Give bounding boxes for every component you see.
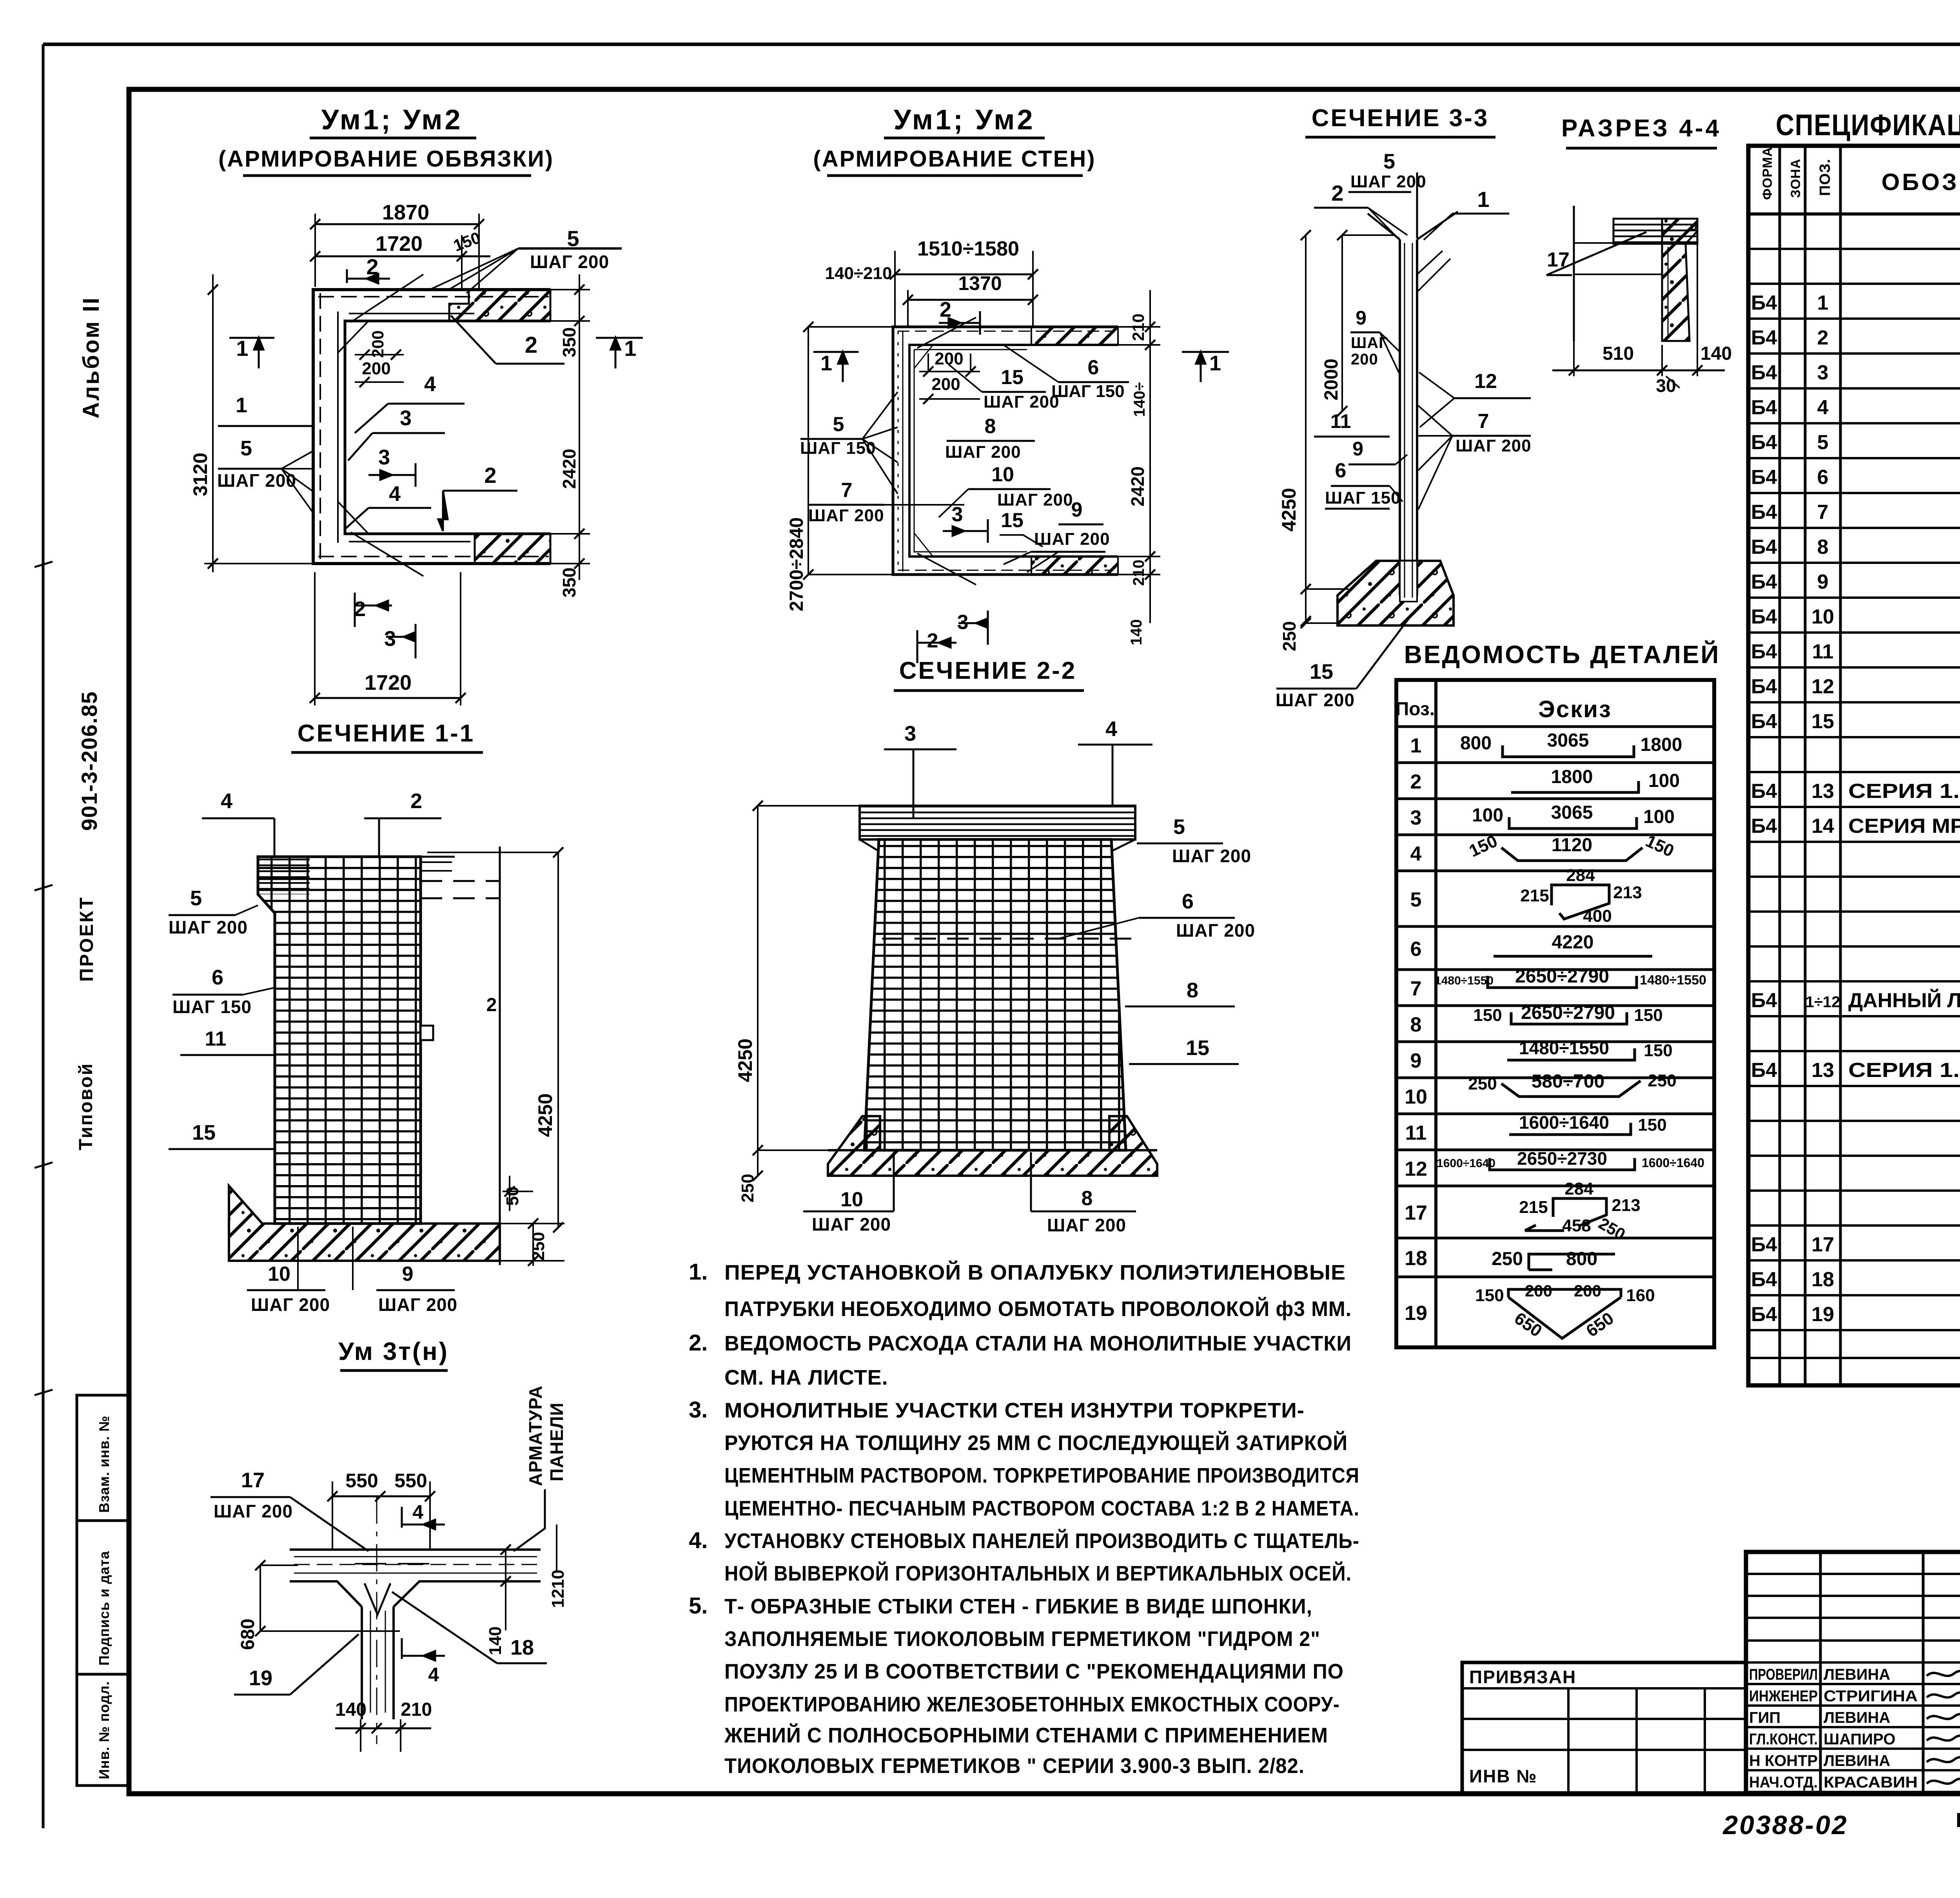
svg-text:МОНОЛИТНЫЕ УЧАСТКИ СТЕН ИЗН: МОНОЛИТНЫЕ УЧАСТКИ СТЕН ИЗНУТРИ ТОРКРЕТИ… (724, 1399, 1305, 1422)
svg-text:13: 13 (1811, 1059, 1834, 1082)
svg-text:ЦЕМЕНТНО- ПЕСЧАНЫМ РАСТВОРОМ: ЦЕМЕНТНО- ПЕСЧАНЫМ РАСТВОРОМ СОСТАВА 1:2… (724, 1497, 1359, 1520)
svg-text:17: 17 (1811, 1233, 1834, 1256)
vedomost table grid (1396, 680, 1714, 1347)
left border division ticks (34, 562, 53, 567)
drawing C dim 250 (1305, 589, 1307, 623)
svg-text:ШАГ 200: ШАГ 200 (808, 506, 884, 525)
svg-text:Ум 3т(н): Ум 3т(н) (338, 1337, 449, 1365)
svg-text:Альбом II: Альбом II (78, 296, 104, 419)
svg-text:Б4: Б4 (1751, 466, 1777, 489)
drawing F dashed line mid (882, 938, 1133, 940)
svg-text:Б4: Б4 (1751, 396, 1777, 419)
svg-text:800: 800 (1460, 733, 1492, 754)
svg-text:901-3-206.85: 901-3-206.85 (77, 691, 102, 831)
svg-text:1870: 1870 (382, 201, 429, 224)
drawing D slab with form lines (1613, 219, 1697, 244)
svg-text:ПРОЕКТ: ПРОЕКТ (76, 896, 97, 982)
svg-text:2420: 2420 (559, 449, 579, 489)
svg-text:Б4: Б4 (1751, 1268, 1777, 1291)
svg-text:8: 8 (1187, 979, 1198, 1002)
svg-text:ШАГ 150: ШАГ 150 (172, 997, 252, 1017)
svg-text:Б4: Б4 (1751, 326, 1777, 349)
svg-text:Б4: Б4 (1751, 710, 1777, 733)
vedomost sketch row 19 (1508, 1289, 1621, 1338)
svg-text:СПЕЦИФИКАЦИЯ МОНОЛИТНЫХ УЧАС: СПЕЦИФИКАЦИЯ МОНОЛИТНЫХ УЧАСТКОВ Ум1 ÷ У… (1776, 109, 1960, 142)
drawing E dim 4250 (557, 852, 559, 1227)
svg-text:Поз.: Поз. (1396, 699, 1435, 720)
svg-text:2: 2 (525, 332, 537, 358)
svg-text:140: 140 (1700, 343, 1732, 364)
svg-text:9: 9 (1356, 307, 1367, 329)
svg-text:Б4: Б4 (1751, 431, 1777, 454)
svg-text:Б4: Б4 (1751, 292, 1777, 314)
svg-text:ШАГ 200: ШАГ 200 (1034, 529, 1110, 549)
svg-text:17: 17 (1547, 248, 1570, 271)
svg-text:1120: 1120 (1552, 835, 1592, 856)
svg-text:1: 1 (236, 393, 247, 417)
svg-text:ШАГ 200: ШАГ 200 (214, 1501, 293, 1521)
drawing A dim 1720 bottom (315, 697, 461, 699)
drawing E top flange form lines (258, 857, 310, 894)
svg-text:3065: 3065 (1551, 802, 1593, 823)
svg-text:200: 200 (362, 359, 390, 378)
svg-text:210: 210 (401, 1699, 432, 1720)
svg-text:4: 4 (412, 1501, 423, 1523)
svg-text:Б4: Б4 (1751, 571, 1777, 593)
svg-text:2700÷2840: 2700÷2840 (786, 517, 807, 611)
svg-text:2: 2 (1331, 181, 1343, 205)
drawing E footing (229, 1186, 500, 1261)
svg-text:9: 9 (1352, 438, 1363, 460)
drawing B dim 1370 (908, 299, 1033, 301)
drawing C dim 2000 (1341, 235, 1343, 411)
vedomost sketch row 4 (1501, 848, 1642, 861)
svg-text:8: 8 (985, 415, 996, 438)
svg-text:ИНВ №: ИНВ № (1469, 1766, 1537, 1786)
svg-text:5: 5 (1817, 431, 1829, 454)
svg-text:4220: 4220 (1552, 932, 1594, 953)
title block signatures squiggles (1927, 1670, 1960, 1676)
svg-text:НАЧ.ОТД.: НАЧ.ОТД. (1749, 1774, 1818, 1791)
svg-text:140÷: 140÷ (1131, 382, 1148, 417)
svg-text:Б4: Б4 (1751, 536, 1777, 558)
svg-text:140: 140 (1128, 619, 1145, 645)
svg-text:6: 6 (1088, 356, 1099, 379)
svg-text:6: 6 (1817, 466, 1829, 489)
svg-text:5: 5 (190, 886, 202, 910)
svg-text:140: 140 (335, 1699, 367, 1720)
svg-text:ШАПИРО: ШАПИРО (1824, 1731, 1895, 1748)
svg-text:ВЕДОМОСТЬ РАСХОДА СТАЛИ НА: ВЕДОМОСТЬ РАСХОДА СТАЛИ НА МОНОЛИТНЫЕ УЧ… (724, 1332, 1352, 1355)
svg-text:680: 680 (238, 1619, 258, 1650)
svg-text:ЛЕВИНА: ЛЕВИНА (1824, 1709, 1890, 1726)
drawing E right inner wall line (499, 847, 501, 1265)
drawing D left vertical line (1573, 206, 1575, 341)
svg-text:4: 4 (1105, 717, 1117, 741)
svg-text:Взам. инв. №: Взам. инв. № (96, 1416, 112, 1513)
svg-text:Б4: Б4 (1751, 780, 1777, 803)
svg-text:Б4: Б4 (1751, 675, 1777, 698)
svg-text:8: 8 (1817, 536, 1829, 558)
svg-text:3065: 3065 (1547, 730, 1589, 751)
svg-text:ШАГ 200: ШАГ 200 (945, 442, 1021, 462)
vedomost sketch row 1 (1503, 745, 1634, 757)
svg-text:100: 100 (1643, 807, 1675, 827)
drawing F body mesh (864, 839, 1126, 1150)
drawing C dim 4250 (1305, 235, 1307, 621)
svg-text:2: 2 (484, 463, 496, 488)
svg-text:6: 6 (212, 966, 223, 989)
svg-text:19: 19 (1405, 1302, 1427, 1325)
drawing A outline outer (313, 290, 550, 564)
svg-text:7: 7 (1410, 977, 1422, 1000)
drawing G wall rebar (294, 1556, 537, 1557)
drawing F footing (828, 1116, 1157, 1176)
svg-text:250: 250 (1279, 621, 1299, 651)
svg-text:15: 15 (1811, 710, 1834, 733)
svg-text:1: 1 (236, 336, 248, 361)
svg-text:Б4: Б4 (1751, 640, 1777, 663)
svg-text:Б4: Б4 (1751, 361, 1777, 384)
svg-text:250: 250 (738, 1174, 757, 1202)
svg-text:ПЕРЕД УСТАНОВКОЙ В ОПАЛУБКУ: ПЕРЕД УСТАНОВКОЙ В ОПАЛУБКУ ПОЛИЭТИЛЕНОВ… (724, 1260, 1346, 1284)
svg-text:2650÷2730: 2650÷2730 (1517, 1148, 1607, 1169)
svg-text:140÷210: 140÷210 (825, 264, 892, 283)
svg-text:350: 350 (559, 567, 579, 598)
svg-text:18: 18 (1811, 1268, 1834, 1291)
drawing F dim 4250 left (757, 806, 759, 1176)
svg-text:12: 12 (1811, 675, 1834, 698)
svg-text:12: 12 (1405, 1158, 1427, 1180)
svg-text:2650÷2790: 2650÷2790 (1521, 1002, 1615, 1023)
svg-text:1800: 1800 (1551, 767, 1593, 787)
svg-text:11: 11 (1330, 410, 1351, 432)
vedomost sketch row 6 (1494, 955, 1652, 958)
svg-text:1.: 1. (689, 1259, 708, 1285)
svg-text:Б4: Б4 (1751, 989, 1777, 1012)
svg-text:Ум1; Ум2: Ум1; Ум2 (894, 104, 1035, 136)
svg-text:4: 4 (389, 482, 401, 506)
svg-text:510: 510 (1602, 343, 1634, 364)
svg-text:2420: 2420 (1127, 466, 1148, 506)
svg-text:550: 550 (345, 1470, 378, 1492)
vedomost sketch row 9 (1507, 1048, 1635, 1060)
svg-text:10: 10 (991, 463, 1014, 486)
vedomost sketch row 18 (1529, 1254, 1615, 1270)
drawing B outline outer (893, 327, 1118, 575)
svg-text:ПАНЕЛИ: ПАНЕЛИ (546, 1402, 567, 1481)
svg-text:3: 3 (378, 446, 390, 469)
outer thin page border (43, 43, 1960, 46)
svg-text:15: 15 (1310, 660, 1333, 683)
svg-text:1600÷1640: 1600÷1640 (1437, 1157, 1495, 1170)
svg-text:19: 19 (1811, 1303, 1834, 1326)
svg-text:5: 5 (833, 413, 844, 436)
svg-text:Б4: Б4 (1751, 501, 1777, 524)
svg-text:Т- ОБРАЗНЫЕ СТЫКИ СТЕН - ГИБ: Т- ОБРАЗНЫЕ СТЫКИ СТЕН - ГИБКИЕ В ВИДЕ Ш… (724, 1595, 1312, 1618)
svg-text:11: 11 (205, 1028, 227, 1050)
svg-text:4: 4 (1817, 396, 1829, 419)
svg-text:2: 2 (1817, 326, 1829, 349)
svg-text:2: 2 (1410, 770, 1422, 793)
svg-text:14: 14 (1811, 815, 1834, 838)
drawing D wall band hatched (1662, 219, 1697, 341)
svg-text:350: 350 (559, 327, 579, 357)
svg-text:1: 1 (1209, 352, 1221, 375)
svg-text:550: 550 (394, 1470, 427, 1492)
svg-text:ШАГ 150: ШАГ 150 (1051, 382, 1125, 401)
vedomost sketch row 2 (1511, 781, 1639, 792)
svg-text:ПАТРУБКИ НЕОБХОДИМО ОБМОТАТЬ: ПАТРУБКИ НЕОБХОДИМО ОБМОТАТЬ ПРОВОЛОКОЙ … (724, 1297, 1352, 1321)
svg-text:СЕЧЕНИЕ 2-2: СЕЧЕНИЕ 2-2 (899, 657, 1077, 684)
svg-text:20388-02: 20388-02 (1722, 1810, 1848, 1840)
svg-text:ЗОНА: ЗОНА (1788, 159, 1803, 198)
vedomost sketch row 3 (1509, 817, 1637, 828)
vedomost sketch row 11 (1509, 1123, 1631, 1135)
svg-text:1: 1 (1410, 734, 1422, 757)
drawing E dashed lines right (421, 880, 500, 882)
svg-text:215: 215 (1520, 886, 1549, 905)
svg-text:АРМАТУРА: АРМАТУРА (525, 1385, 546, 1486)
svg-text:СТРИГИНА: СТРИГИНА (1824, 1688, 1918, 1705)
svg-text:250: 250 (1468, 1074, 1497, 1093)
svg-text:3: 3 (904, 722, 916, 745)
svg-text:Эскиз: Эскиз (1538, 696, 1612, 722)
svg-text:5: 5 (1410, 888, 1422, 911)
svg-text:ОБОЗНАЧЕНИЕ: ОБОЗНАЧЕНИЕ (1882, 169, 1960, 195)
svg-text:13: 13 (1811, 780, 1834, 803)
svg-text:17: 17 (1405, 1202, 1427, 1224)
svg-text:215: 215 (1519, 1198, 1548, 1217)
svg-text:284: 284 (1564, 1179, 1593, 1198)
svg-text:200: 200 (1525, 1282, 1552, 1300)
drawing F top flange (860, 806, 1135, 839)
svg-text:ПОУЗЛУ 25 И В СООТВЕТСТВИИ: ПОУЗЛУ 25 И В СООТВЕТСТВИИ С "РЕКОМЕНДАЦ… (724, 1660, 1344, 1683)
svg-text:17: 17 (241, 1468, 265, 1492)
drawing G stem (361, 1607, 363, 1719)
svg-text:НОЙ ВЫВЕРКОЙ ГОРИЗОНТАЛЬНЫХ: НОЙ ВЫВЕРКОЙ ГОРИЗОНТАЛЬНЫХ И ВЕРТИКАЛЬН… (724, 1561, 1352, 1585)
svg-text:(АРМИРОВАНИЕ СТЕН): (АРМИРОВАНИЕ СТЕН) (813, 146, 1096, 172)
svg-text:2.: 2. (689, 1330, 708, 1356)
svg-text:3: 3 (400, 406, 412, 430)
svg-text:150: 150 (1634, 1006, 1662, 1025)
svg-text:1: 1 (624, 336, 636, 361)
drawing G wall (290, 1548, 541, 1551)
svg-text:Б4: Б4 (1751, 1233, 1777, 1256)
svg-text:6: 6 (1335, 459, 1347, 482)
svg-text:ФОРМА: ФОРМА (1760, 147, 1775, 200)
svg-text:4250: 4250 (534, 1093, 556, 1137)
svg-text:150: 150 (1644, 1041, 1672, 1060)
vedomost sketch row 8 (1511, 1012, 1627, 1024)
svg-text:1480÷1550: 1480÷1550 (1640, 973, 1706, 988)
svg-text:11: 11 (1405, 1122, 1427, 1144)
svg-text:ШАГ 200: ШАГ 200 (1276, 690, 1355, 710)
privyazan box (1462, 1662, 1746, 1794)
svg-text:1600÷1640: 1600÷1640 (1642, 1156, 1704, 1170)
svg-text:4.: 4. (689, 1528, 708, 1553)
svg-text:9: 9 (402, 1263, 414, 1285)
svg-text:1: 1 (820, 352, 832, 375)
svg-text:140: 140 (486, 1626, 505, 1655)
svg-text:ПРОВЕРИЛ: ПРОВЕРИЛ (1749, 1666, 1818, 1683)
svg-text:10: 10 (1405, 1086, 1427, 1108)
svg-text:150: 150 (1638, 1115, 1666, 1135)
svg-text:3.: 3. (689, 1397, 708, 1423)
svg-text:КОПИРОВАЛ ЕРЕМЧЕНКО: КОПИРОВАЛ ЕРЕМЧЕНКО (1956, 1809, 1960, 1832)
svg-text:15: 15 (1186, 1036, 1209, 1060)
svg-text:1600÷1640: 1600÷1640 (1519, 1112, 1609, 1133)
svg-text:3120: 3120 (189, 453, 211, 496)
svg-text:СМ. НА ЛИСТЕ.: СМ. НА ЛИСТЕ. (724, 1366, 888, 1389)
svg-text:ШАГ 200: ШАГ 200 (984, 392, 1060, 412)
svg-text:9: 9 (1817, 571, 1829, 593)
svg-text:4: 4 (428, 1664, 439, 1686)
svg-text:Подпись и дата: Подпись и дата (96, 1551, 112, 1666)
svg-text:7: 7 (1817, 501, 1829, 524)
svg-text:800: 800 (1566, 1249, 1597, 1269)
svg-text:213: 213 (1612, 1196, 1640, 1215)
svg-text:ЛЕВИНА: ЛЕВИНА (1824, 1752, 1890, 1769)
svg-text:2: 2 (927, 629, 938, 652)
svg-text:Б4: Б4 (1751, 1303, 1777, 1326)
svg-text:ШАГ 200: ШАГ 200 (812, 1214, 891, 1235)
svg-text:ЛЕВИНА: ЛЕВИНА (1824, 1666, 1890, 1683)
svg-text:УСТАНОВКУ СТЕНОВЫХ ПАНЕЛЕЙ: УСТАНОВКУ СТЕНОВЫХ ПАНЕЛЕЙ ПРОИЗВОДИТЬ С… (724, 1529, 1359, 1553)
svg-text:ПОЗ.: ПОЗ. (1817, 159, 1833, 196)
svg-text:Инв. № подл.: Инв. № подл. (96, 1681, 112, 1779)
svg-text:2650÷2790: 2650÷2790 (1515, 966, 1609, 987)
svg-text:580÷700: 580÷700 (1532, 1071, 1605, 1092)
left sidebar stamp boxes (77, 1395, 129, 1786)
svg-text:5.: 5. (689, 1593, 708, 1619)
drawing G center axis (376, 1496, 377, 1744)
svg-text:10: 10 (840, 1188, 863, 1211)
svg-text:458: 458 (1562, 1216, 1591, 1235)
svg-text:ДАННЫЙ ЛИСТ: ДАННЫЙ ЛИСТ (1848, 989, 1960, 1012)
drawing B outline inner (909, 345, 1118, 557)
svg-text:6: 6 (1410, 938, 1422, 961)
svg-text:ШАГ 200: ШАГ 200 (1047, 1215, 1126, 1235)
svg-text:5: 5 (240, 437, 252, 460)
svg-text:12: 12 (1474, 370, 1497, 393)
drawing E mesh body (258, 857, 421, 1224)
svg-text:ПРОЕКТИРОВАНИЮ ЖЕЛЕЗОБЕТОННЫХ: ПРОЕКТИРОВАНИЮ ЖЕЛЕЗОБЕТОННЫХ ЕМКОСТНЫХ … (724, 1693, 1340, 1716)
svg-text:ШАГ 200: ШАГ 200 (1172, 846, 1251, 866)
svg-text:1510÷1580: 1510÷1580 (917, 237, 1019, 260)
svg-text:7: 7 (1478, 410, 1489, 433)
svg-text:РАЗРЕЗ 4-4: РАЗРЕЗ 4-4 (1561, 115, 1721, 142)
svg-text:8: 8 (1082, 1187, 1093, 1210)
svg-text:200: 200 (368, 330, 387, 358)
svg-text:4250: 4250 (734, 1039, 756, 1082)
svg-text:3: 3 (952, 503, 963, 526)
svg-text:150: 150 (1473, 1006, 1502, 1025)
svg-text:Б4: Б4 (1751, 1059, 1777, 1082)
svg-text:10: 10 (1811, 605, 1834, 628)
drawing B bottom hatch block (1031, 557, 1118, 575)
drawing F chamfers (860, 839, 1135, 851)
svg-text:ПРИВЯЗАН: ПРИВЯЗАН (1469, 1667, 1576, 1687)
svg-text:10: 10 (268, 1263, 290, 1285)
svg-text:СЕРИЯ 1.400-15. вып.1: СЕРИЯ 1.400-15. вып.1 (1848, 1059, 1960, 1082)
svg-text:1720: 1720 (365, 671, 412, 694)
svg-text:4: 4 (221, 789, 232, 813)
drawing B dim 1510-1580 (895, 274, 1033, 276)
svg-text:100: 100 (1648, 770, 1680, 791)
drawing B top hatch block (1031, 327, 1118, 345)
svg-text:ЦЕМЕНТНЫМ РАСТВОРОМ. ТОРКРЕТ: ЦЕМЕНТНЫМ РАСТВОРОМ. ТОРКРЕТИРОВАНИЕ ПРО… (724, 1464, 1359, 1487)
svg-text:1÷12: 1÷12 (1806, 993, 1840, 1011)
svg-text:5: 5 (567, 226, 579, 251)
svg-text:1480÷1550: 1480÷1550 (1435, 974, 1494, 987)
svg-text:3: 3 (1817, 361, 1829, 384)
svg-text:250: 250 (1492, 1249, 1523, 1269)
svg-text:ШАГ 200: ШАГ 200 (378, 1294, 457, 1315)
svg-text:5: 5 (1383, 150, 1395, 173)
svg-text:15: 15 (1001, 366, 1024, 389)
svg-text:6: 6 (1182, 890, 1194, 913)
svg-text:ВЕДОМОСТЬ ДЕТАЛЕЙ: ВЕДОМОСТЬ ДЕТАЛЕЙ (1404, 640, 1720, 669)
title block outer (1746, 1552, 1960, 1793)
svg-text:ШАГ 200: ШАГ 200 (1176, 920, 1255, 941)
drawing C column shaft (1368, 212, 1458, 239)
svg-text:150: 150 (1475, 1286, 1504, 1305)
drawing A dim 1720 top (315, 256, 490, 257)
svg-text:9: 9 (1071, 499, 1083, 521)
svg-text:4250: 4250 (1278, 488, 1300, 531)
svg-text:Типовой: Типовой (76, 1062, 96, 1150)
svg-text:ЖЕНИЙ С ПОЛНОСБОРНЫМИ СТЕНА: ЖЕНИЙ С ПОЛНОСБОРНЫМИ СТЕНАМИ С ПРИМЕНЕН… (724, 1723, 1328, 1747)
vedomost sketch row 10 (1501, 1081, 1641, 1097)
svg-text:11: 11 (1812, 640, 1834, 663)
svg-text:15: 15 (1001, 509, 1024, 532)
svg-text:7: 7 (841, 479, 853, 502)
svg-text:30: 30 (1656, 375, 1676, 396)
drawing A top hatch block (449, 290, 550, 321)
svg-text:ГИП: ГИП (1749, 1709, 1780, 1726)
svg-text:ГЛ.КОНСТ.: ГЛ.КОНСТ. (1749, 1731, 1818, 1748)
drawing G shponka V (365, 1583, 390, 1615)
svg-text:3: 3 (384, 627, 396, 651)
drawing A bottom hatch block (475, 534, 550, 564)
vedomost sketch row 7 (1488, 976, 1637, 988)
svg-text:9: 9 (1410, 1050, 1422, 1072)
vedomost sketch row 12 (1490, 1158, 1635, 1170)
svg-text:400: 400 (1583, 906, 1612, 926)
svg-text:Н КОНТР: Н КОНТР (1749, 1752, 1818, 1769)
svg-text:200: 200 (1351, 351, 1378, 368)
specification table grid (1748, 146, 1960, 1385)
svg-text:1: 1 (1477, 187, 1489, 212)
svg-text:Ум1; Ум2: Ум1; Ум2 (321, 104, 463, 136)
svg-text:1210: 1210 (548, 1570, 568, 1608)
svg-text:100: 100 (1472, 805, 1503, 826)
svg-text:160: 160 (1626, 1286, 1655, 1305)
drawing A dim 1870 (315, 223, 479, 225)
drawing E small tab (421, 1026, 433, 1040)
svg-text:18: 18 (510, 1636, 534, 1659)
svg-text:ШАГ 200: ШАГ 200 (997, 490, 1073, 509)
drawing B rebar (898, 331, 1113, 332)
drawing D dims 510 140 30 (1573, 341, 1575, 376)
svg-text:210: 210 (1130, 560, 1147, 586)
svg-text:(АРМИРОВАНИЕ ОБВЯЗКИ): (АРМИРОВАНИЕ ОБВЯЗКИ) (218, 146, 554, 172)
svg-text:СЕЧЕНИЕ 1-1: СЕЧЕНИЕ 1-1 (298, 720, 475, 747)
svg-text:1720: 1720 (376, 232, 423, 256)
svg-text:ШАГ 200: ШАГ 200 (530, 252, 609, 272)
svg-text:ШАГ 150: ШАГ 150 (1325, 488, 1401, 508)
